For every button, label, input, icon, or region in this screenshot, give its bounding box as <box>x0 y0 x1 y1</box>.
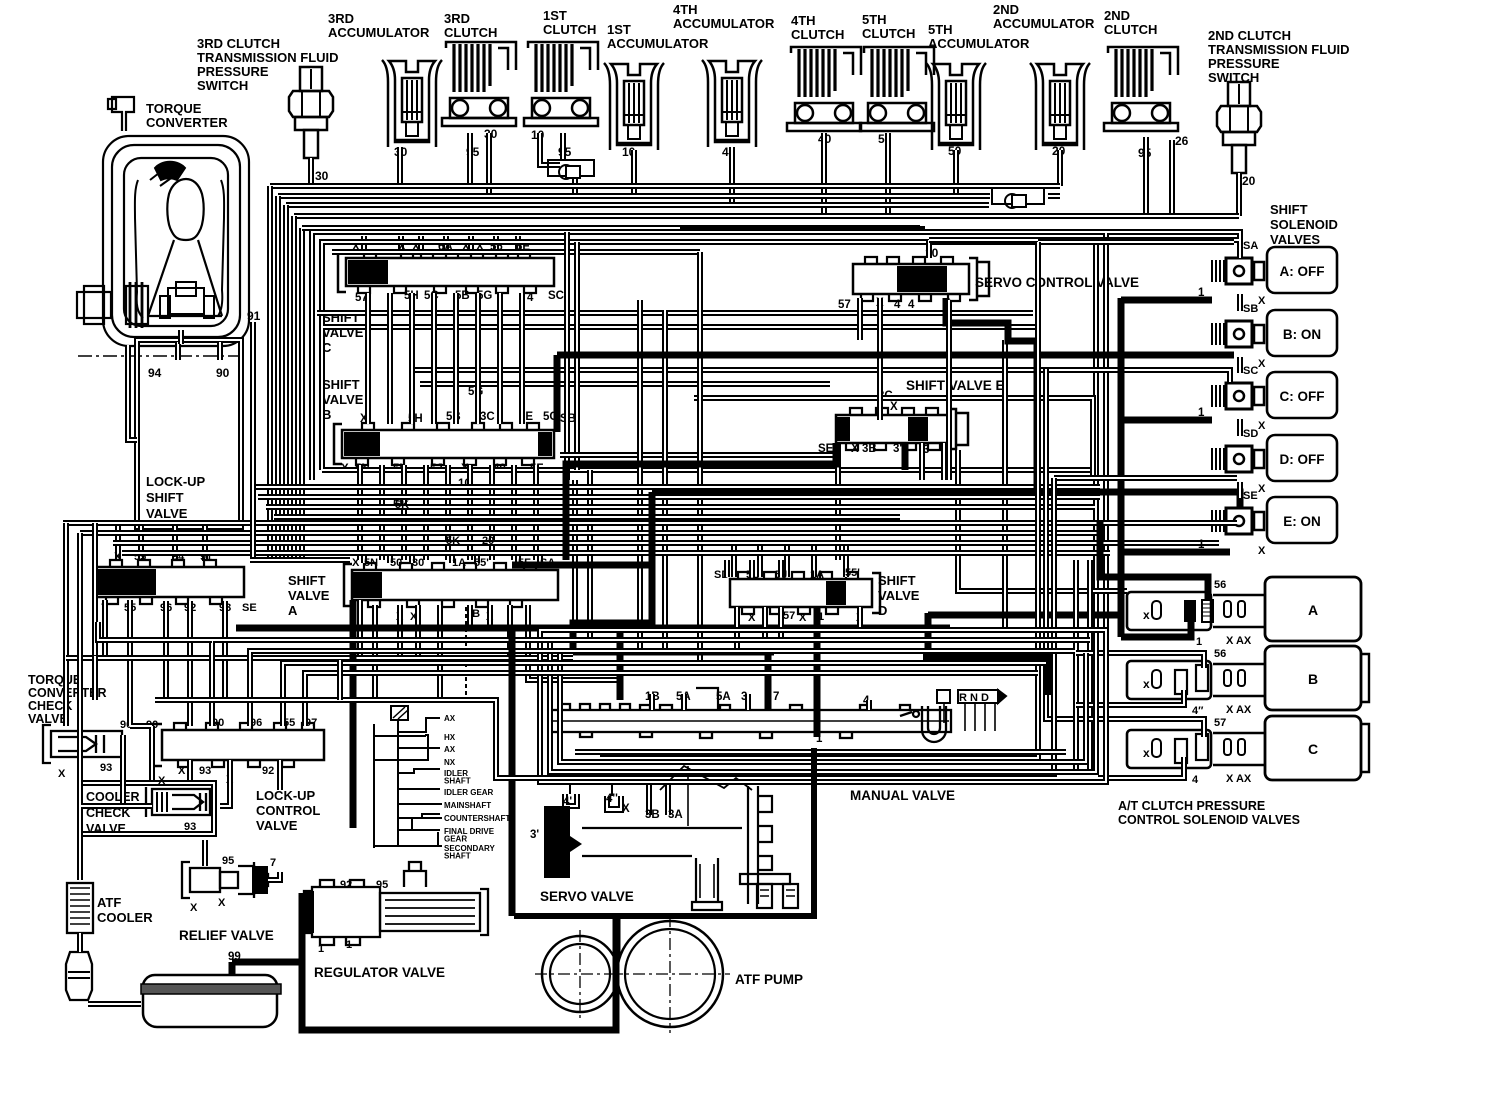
svg-text:X: X <box>1258 420 1266 432</box>
lockup box to thick <box>337 660 343 700</box>
A drop x375 <box>372 605 378 700</box>
thick regulator left <box>299 893 306 964</box>
svg-text:PRESSURE: PRESSURE <box>197 64 269 79</box>
D up x781 <box>778 560 784 577</box>
tc bottom link <box>178 330 184 344</box>
svg-text:95: 95 <box>376 879 388 891</box>
ATF strainer tank <box>143 975 277 1027</box>
clutch box C <box>1265 716 1361 780</box>
svg-text:SHIFT: SHIFT <box>878 573 916 588</box>
left vert x294 <box>291 216 297 560</box>
svg-text:SHIFT: SHIFT <box>1270 202 1308 217</box>
thick pump link <box>614 918 621 954</box>
regulator valve <box>304 862 488 945</box>
svg-text:1: 1 <box>1196 636 1202 648</box>
svg-text:7: 7 <box>270 857 276 869</box>
svg-text:CONVERTER: CONVERTER <box>146 115 228 130</box>
lockup ctl to check <box>220 760 230 806</box>
shift valve CB inner box <box>322 242 1234 772</box>
thick A vert long <box>350 600 357 828</box>
B 56 feed <box>1076 653 1204 668</box>
svg-text:LOCK-UP: LOCK-UP <box>146 474 206 489</box>
vent B-C <box>1237 357 1243 373</box>
svg-text:1A: 1A <box>810 569 824 581</box>
thick link y565 <box>512 562 652 569</box>
cooler check link <box>123 735 152 806</box>
left vert x95 down <box>92 523 98 658</box>
svg-text:SD: SD <box>1243 428 1258 440</box>
svg-text:1ST: 1ST <box>543 8 567 23</box>
E 3 drop <box>919 443 925 480</box>
A drop x490 <box>487 605 493 628</box>
lock-up shift valve spool <box>96 567 244 597</box>
2nd clutch <box>1104 47 1178 131</box>
svg-text:SA: SA <box>1243 240 1258 252</box>
vert x1005 <box>1002 340 1008 630</box>
valve C-B link x390 <box>387 293 393 424</box>
wire: 1st accum drop 10 <box>631 150 637 196</box>
svg-text:3B: 3B <box>862 443 877 455</box>
right vert x1076 <box>1073 560 1079 775</box>
svg-text:CLUTCH: CLUTCH <box>444 25 497 40</box>
svg-text:26: 26 <box>1175 134 1189 148</box>
svg-text:7: 7 <box>773 691 779 703</box>
svg-text:COOLER: COOLER <box>86 790 139 804</box>
shift valve B spool <box>342 430 554 458</box>
1B vent dashed <box>465 607 467 700</box>
midband y533 <box>80 530 1100 536</box>
A drop x528 bend <box>528 605 620 680</box>
svg-text:LOCK-UP: LOCK-UP <box>256 788 316 803</box>
torque converter shaft <box>77 282 148 328</box>
valve C-B link x412 <box>409 293 415 424</box>
svg-text:SWITCH: SWITCH <box>197 78 248 93</box>
valve A riser x364 <box>361 552 367 563</box>
vert x949 <box>946 300 952 480</box>
manual valve box3 sides+bottom <box>560 653 1086 762</box>
svg-text:ACCUMULATOR: ACCUMULATOR <box>673 16 775 31</box>
shift valve A left cap <box>344 564 352 606</box>
svg-text:5TH: 5TH <box>862 12 887 27</box>
svg-text:ACCUMULATOR: ACCUMULATOR <box>607 36 709 51</box>
shift valve CB outer box + SA feed <box>312 232 1240 782</box>
right vert x1046 <box>1046 369 1080 719</box>
thick bus y229 <box>680 226 925 232</box>
4th accumulator <box>702 60 762 147</box>
94 stub <box>175 342 181 360</box>
svg-text:x: x <box>1143 608 1150 622</box>
svg-text:5K: 5K <box>446 535 460 547</box>
C 57 feed <box>1080 719 1204 737</box>
box bus y384 <box>420 381 830 387</box>
valve A riser x412 <box>409 552 415 563</box>
svg-text:VALVES: VALVES <box>1270 232 1320 247</box>
check valve (1st clutch line) <box>548 160 594 179</box>
svg-text:B: B <box>1308 671 1318 687</box>
lockup riser x175 <box>172 523 178 561</box>
vert x958 to A x-port <box>958 450 1127 591</box>
valve C-B link x500 <box>497 293 503 424</box>
A drop x510 <box>507 605 513 656</box>
funnel to strainer <box>88 1001 141 1007</box>
wire: 2nd clutch 26 <box>1169 140 1175 216</box>
lockup ctl 55 run y663 <box>283 663 1046 726</box>
svg-text:1: 1 <box>1198 407 1205 419</box>
svg-text:3': 3' <box>530 829 539 841</box>
svg-text:30: 30 <box>412 557 424 569</box>
lockup 96 down <box>163 601 169 700</box>
lockup ctl drop2 <box>277 760 283 790</box>
svg-text:X: X <box>1258 483 1266 495</box>
svg-text:SC: SC <box>1243 365 1258 377</box>
svg-text:SHIFT: SHIFT <box>288 573 326 588</box>
svg-text:92: 92 <box>262 765 274 777</box>
svg-text:5K: 5K <box>395 499 409 511</box>
lock-up control valve spool <box>162 730 324 760</box>
pipe to SD y478 <box>1054 475 1237 481</box>
svg-text:IDLERSHAFT: IDLERSHAFT <box>444 769 471 786</box>
svg-text:x: x <box>1143 677 1150 691</box>
B 4'' return <box>1076 690 1184 705</box>
servo box thick edge <box>514 748 814 916</box>
box bus y327 <box>323 324 1040 330</box>
svg-text:91: 91 <box>247 309 261 323</box>
lock-up shift valve box <box>137 340 241 527</box>
thick D 1 down to manual valve <box>814 607 821 737</box>
box bus y370 to SC <box>412 370 1230 382</box>
wire: 3rd clutch 30 drop <box>486 133 492 196</box>
vert x640 <box>637 300 643 650</box>
svg-text:20: 20 <box>1242 174 1256 188</box>
5th clutch <box>860 47 934 131</box>
svg-text:CONTROL SOLENOID VALVES: CONTROL SOLENOID VALVES <box>1118 813 1300 827</box>
thick x620 manual feed <box>617 630 624 700</box>
svg-text:5N: 5N <box>364 557 378 569</box>
relief valve <box>182 862 268 898</box>
torque converter internals <box>150 162 214 318</box>
D drop x765 <box>762 607 768 640</box>
svg-text:ATF: ATF <box>97 895 121 910</box>
wire: 1st clutch 95 drop <box>560 133 566 160</box>
svg-text:4: 4 <box>1192 774 1199 786</box>
solenoid symbol SA <box>1212 258 1264 284</box>
midband y543 <box>113 540 1219 546</box>
svg-text:VALVE: VALVE <box>878 588 920 603</box>
svg-text:4TH: 4TH <box>673 2 698 17</box>
valve C riser x421 <box>418 236 424 251</box>
svg-text:X: X <box>799 612 807 624</box>
svg-text:HX: HX <box>444 733 456 742</box>
valve D riser x787 <box>784 545 790 577</box>
lockup ctl drop <box>187 760 193 780</box>
svg-text:X: X <box>1258 358 1266 370</box>
svg-text:30: 30 <box>315 169 329 183</box>
shift valve B left cap <box>334 424 342 464</box>
2nd accumulator <box>1030 63 1090 150</box>
svg-text:SC: SC <box>548 290 564 302</box>
valve B down x448 <box>445 465 451 560</box>
svg-text:3RD CLUTCH: 3RD CLUTCH <box>197 36 280 51</box>
svg-text:A: A <box>288 603 298 618</box>
svg-text:4: 4 <box>908 299 915 311</box>
valve B down x426 <box>423 465 429 560</box>
svg-text:ACCUMULATOR: ACCUMULATOR <box>928 36 1030 51</box>
lockup ctl box dotted run <box>155 700 590 778</box>
clutch box B <box>1265 646 1361 710</box>
lockup 92 down <box>187 601 193 726</box>
valve A riser x540 <box>537 552 543 563</box>
valve D riser x846 <box>843 545 849 577</box>
svg-text:92: 92 <box>340 879 352 891</box>
vert x665 <box>662 310 668 655</box>
svg-text:93: 93 <box>199 765 211 777</box>
svg-text:TORQUE: TORQUE <box>146 101 202 116</box>
svg-text:3': 3' <box>893 443 902 455</box>
99 drop <box>229 962 236 975</box>
svg-text:1: 1 <box>318 943 324 955</box>
valve C-B link x434 <box>431 293 437 424</box>
svg-text:1: 1 <box>1198 539 1205 551</box>
svg-text:57: 57 <box>1214 717 1226 729</box>
svg-text:A/T CLUTCH PRESSURE: A/T CLUTCH PRESSURE <box>1118 799 1265 813</box>
servo 3B pipe <box>646 782 652 815</box>
shift valve C left cap <box>338 252 346 292</box>
shift valve D spool <box>730 579 872 607</box>
wire: 3rd switch drop 30 <box>308 158 314 186</box>
svg-text:94: 94 <box>148 366 162 380</box>
valve B down x360 <box>357 465 363 560</box>
wire: 5th clutch drop 50 <box>885 133 891 216</box>
wire: 2nd switch drop 20 <box>1236 173 1242 216</box>
bus y228 <box>302 225 920 231</box>
svg-text:D: OFF: D: OFF <box>1280 452 1325 467</box>
svg-text:CONTROL: CONTROL <box>256 803 320 818</box>
midband y487 <box>250 484 1100 490</box>
valve C riser x518 <box>515 236 521 251</box>
svg-text:B: ON: B: ON <box>1283 327 1321 342</box>
svg-text:VALVE: VALVE <box>322 392 364 407</box>
check valve drop <box>572 176 578 196</box>
right vert x1038 + y758 run <box>600 242 1038 758</box>
check valve to 2nd accum drop <box>1048 193 1060 199</box>
thick SA link <box>1121 297 1212 304</box>
ATF strainer funnel <box>66 952 92 1000</box>
1st clutch <box>524 42 598 126</box>
check valve (lower right of 5th accum) <box>992 188 1044 208</box>
svg-text:4': 4' <box>563 796 572 808</box>
solenoid symbol SC <box>1212 383 1264 409</box>
svg-text:1A: 1A <box>452 557 466 569</box>
svg-text:57: 57 <box>838 299 851 311</box>
bus y196 <box>278 193 990 199</box>
shift valve E right cap <box>948 409 968 449</box>
valve A riser x390 <box>387 552 393 563</box>
D drop x860 <box>857 607 863 630</box>
svg-text:4″: 4″ <box>1192 705 1204 717</box>
thick y492 link <box>652 489 1037 496</box>
wire: 1st clutch 10 <box>540 133 560 165</box>
wire: 2nd clutch 95 drop <box>1143 137 1149 216</box>
svg-text:x: x <box>1143 746 1150 760</box>
vert x590 <box>587 470 593 640</box>
thick 1 link y552 <box>1121 549 1230 556</box>
svg-text:93: 93 <box>184 821 196 833</box>
wire: 4th clutch drop 40 <box>821 133 827 216</box>
left vert x302 <box>299 228 305 560</box>
4th clutch <box>787 47 861 131</box>
servo control valve spool <box>853 264 969 294</box>
torque converter extra walls <box>135 180 224 318</box>
3rd clutch pressure switch <box>289 67 333 158</box>
thick 56 feed to A solenoid <box>1100 520 1208 598</box>
servo ctl 57 drop <box>857 298 863 340</box>
pressure control solenoid A body <box>1127 592 1211 630</box>
svg-text:CLUTCH: CLUTCH <box>791 27 844 42</box>
91 line x253 <box>250 322 256 560</box>
servo 4'' cup <box>605 782 623 812</box>
left vert x270 <box>267 186 273 560</box>
midband y553 <box>122 550 1110 556</box>
valve B down x492 <box>489 465 495 560</box>
thick SC-D link <box>1121 417 1212 424</box>
valve C-B link x478 <box>475 293 481 424</box>
A left link <box>250 557 350 563</box>
lockup 55 to cooler check <box>130 600 152 780</box>
gear list bracket lines <box>374 718 442 848</box>
svg-text:AX: AX <box>444 745 456 754</box>
svg-text:X AX: X AX <box>1226 635 1252 647</box>
solenoid symbol SE <box>1212 508 1264 534</box>
svg-text:VALVE: VALVE <box>146 506 188 521</box>
valve B down x404 <box>401 465 407 560</box>
svg-text:SHIFT: SHIFT <box>322 377 360 392</box>
ATF pump large gear <box>617 921 723 1027</box>
valve A riser x477 <box>474 552 480 563</box>
servo control valve right cap <box>969 258 989 300</box>
D drop x737 <box>734 607 740 650</box>
svg-text:ACCUMULATOR: ACCUMULATOR <box>328 25 430 40</box>
svg-text:X: X <box>890 401 898 413</box>
svg-text:C: C <box>1308 741 1318 757</box>
shift solenoid valve A: OFF <box>1267 247 1337 293</box>
manual 3 drop <box>745 694 751 710</box>
valve A riser x452 <box>449 552 455 563</box>
thick vert x1121 <box>1118 298 1125 637</box>
svg-text:X AX: X AX <box>1226 773 1252 785</box>
svg-text:CLUTCH: CLUTCH <box>543 22 596 37</box>
thick x512 drop to servo bottom <box>509 628 516 916</box>
svg-text:4: 4 <box>894 299 901 311</box>
svg-text:2ND: 2ND <box>1104 8 1130 23</box>
svg-text:X: X <box>748 612 756 624</box>
valve E box <box>694 398 1093 475</box>
thick E to valve A SA port <box>566 443 836 560</box>
svg-text:REGULATOR VALVE: REGULATOR VALVE <box>314 965 445 980</box>
midband y497 <box>258 494 1100 500</box>
wire: 3rd accum drop 30 <box>397 147 403 186</box>
thick x928 link <box>925 613 932 657</box>
manual valve 5A port box <box>696 688 718 710</box>
relief 7 link <box>268 872 280 880</box>
frame vert x567 <box>564 232 570 480</box>
cooler check valve box <box>80 783 214 834</box>
solenoid symbol SD <box>1212 446 1264 472</box>
manual valve outer box <box>540 630 1106 782</box>
valve C riser x364 <box>361 236 367 251</box>
thick x768 to manual 7 <box>765 651 772 710</box>
thick SB line y355 <box>557 355 1234 432</box>
shift solenoid valve C: OFF <box>1267 372 1337 418</box>
lockup ctl 90 run y640 <box>212 640 1090 726</box>
svg-text:3RD: 3RD <box>444 11 470 26</box>
pipe to SA y242 <box>1038 239 1234 245</box>
valve B down x514 <box>511 465 517 560</box>
wire: 2nd accum drop 20 <box>1057 150 1063 186</box>
svg-text:X: X <box>1258 295 1266 307</box>
left vert x278 <box>275 196 281 560</box>
manual valve lever <box>900 706 946 742</box>
svg-text:56: 56 <box>1214 579 1226 591</box>
svg-text:X: X <box>218 897 226 909</box>
svg-text:SHIFT VALVE E: SHIFT VALVE E <box>906 378 1005 393</box>
servo 4' cup <box>563 782 579 808</box>
valve C riser x446 <box>443 236 449 251</box>
manual valve spool <box>551 704 951 738</box>
90 stub <box>217 342 223 360</box>
A drop x418 <box>415 605 421 656</box>
svg-text:1: 1 <box>1198 287 1205 299</box>
wire: 4th accum drop 40 <box>729 147 735 205</box>
shift solenoid valve E: ON <box>1267 497 1337 543</box>
right vert x1054 + y774 run <box>590 478 1054 774</box>
wire: 3rd clutch 95 drop <box>467 133 473 186</box>
clutch box A <box>1265 577 1361 641</box>
shift valve D right cap <box>872 573 880 613</box>
right vert x1090 <box>1087 560 1093 772</box>
svg-text:3C: 3C <box>480 411 495 423</box>
lockup riser x141 <box>138 523 144 561</box>
svg-text:TRANSMISSION FLUID: TRANSMISSION FLUID <box>1208 42 1350 57</box>
svg-text:X: X <box>1258 545 1266 557</box>
valve B down x382 <box>379 465 385 560</box>
svg-text:X: X <box>158 775 166 787</box>
cooler to funnel <box>77 933 83 952</box>
thick strainer-regulator-servo loop <box>232 915 616 1030</box>
svg-text:SB: SB <box>1243 303 1258 315</box>
bus y186 <box>270 183 1060 189</box>
svg-text:SERVO VALVE: SERVO VALVE <box>540 889 634 904</box>
D up x752 <box>749 560 755 577</box>
thick E drop <box>902 443 909 470</box>
shift solenoid valve B: ON <box>1267 310 1337 356</box>
thick under A sol <box>1121 621 1191 637</box>
vent C-D <box>1237 419 1243 436</box>
valve C-B link x456 <box>453 293 459 424</box>
shift valve C spool <box>346 258 554 286</box>
servo valve piston (black) <box>544 806 582 878</box>
lockup ctl 96 run y651 <box>250 651 1075 726</box>
svg-text:R N D: R N D <box>959 692 989 704</box>
svg-text:COOLER: COOLER <box>97 910 153 925</box>
svg-text:TRANSMISSION FLUID: TRANSMISSION FLUID <box>197 50 339 65</box>
svg-text:COUNTERSHAFT: COUNTERSHAFT <box>444 814 510 823</box>
midband y517 <box>274 514 900 520</box>
svg-text:56: 56 <box>1214 648 1226 660</box>
thick y657 right <box>923 657 1048 695</box>
lockup 7 down <box>102 600 108 658</box>
svg-text:X AX: X AX <box>1226 704 1252 716</box>
shift valve A spool <box>352 570 558 600</box>
